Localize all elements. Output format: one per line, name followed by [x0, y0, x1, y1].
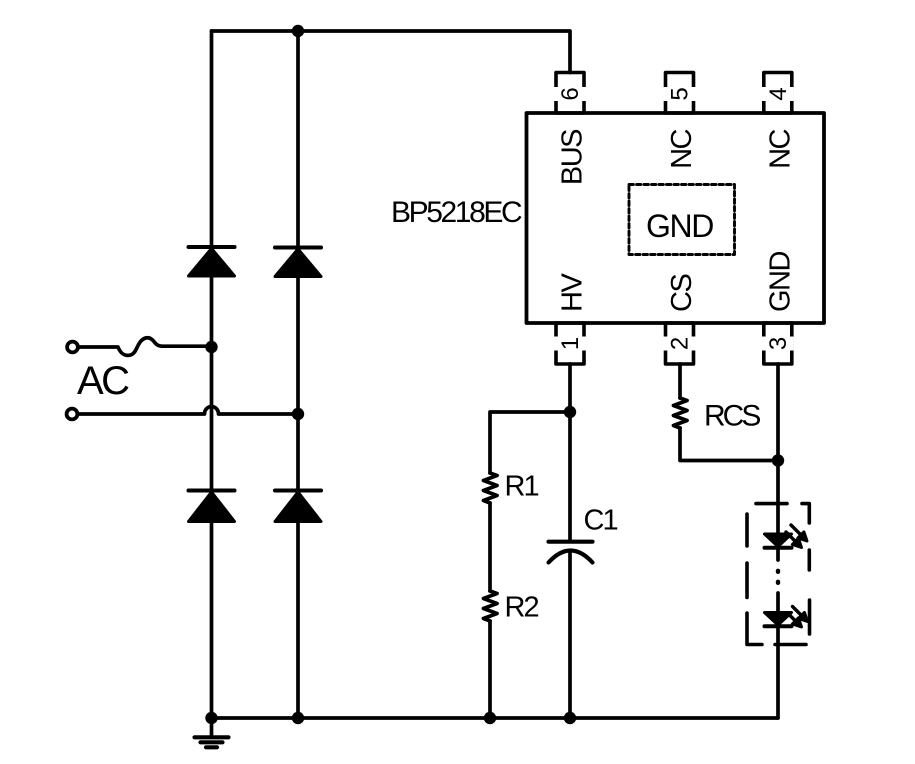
op-amp U1 BP5218EC body [527, 113, 825, 323]
wire AC top with fuse squiggle [79, 338, 212, 356]
LED D5 arrow 2 [786, 532, 802, 548]
resistor RCS [674, 398, 688, 428]
pin box 5 [666, 73, 694, 114]
LED dashed box [747, 504, 810, 645]
pin box 6 [556, 73, 584, 114]
node AC top tap [205, 341, 217, 353]
resistor R2 [484, 591, 498, 621]
wire pin3 down [776, 364, 780, 534]
svg-text:R1: R1 [505, 471, 539, 503]
diode upper-right [275, 248, 321, 277]
svg-text:6: 6 [557, 87, 584, 100]
svg-text:C1: C1 [584, 505, 618, 537]
pin box 2 [666, 323, 694, 364]
node ground rail left [205, 712, 217, 724]
node ground rail 3 [484, 712, 496, 724]
svg-text:3: 3 [765, 337, 792, 350]
wire pin2 to RCS [678, 364, 682, 398]
svg-text:5: 5 [667, 87, 694, 100]
wire RCS to node [680, 428, 778, 461]
wire LED to rail [776, 626, 780, 718]
svg-text:NC: NC [666, 129, 698, 168]
LED D5 arrow 1 [791, 525, 807, 541]
svg-text:GND: GND [646, 208, 713, 244]
svg-text:BP5218EC: BP5218EC [391, 196, 522, 229]
node CS-GND junction [772, 454, 784, 466]
node ground rail 4 [564, 712, 576, 724]
LED D6 arrow 1 [793, 607, 808, 622]
capacitor C1 [549, 542, 593, 563]
wire bottom rail [212, 716, 779, 720]
diode upper-left [189, 247, 235, 276]
wire node to R branch [490, 412, 570, 473]
wire AC bottom with hop [78, 407, 299, 414]
node HV branch [564, 406, 576, 418]
wire pin1 to C1 [568, 364, 572, 540]
LED D6 [765, 613, 792, 627]
node AC bottom tap [292, 408, 304, 420]
ground [195, 718, 229, 747]
LED D6 arrow 2 [788, 613, 802, 627]
svg-text:GND: GND [764, 252, 796, 313]
LED D5 [765, 534, 792, 548]
svg-text:1: 1 [557, 337, 584, 350]
svg-text:4: 4 [765, 87, 792, 100]
svg-text:HV: HV [557, 273, 589, 312]
AC terminal bottom [67, 409, 78, 420]
diode lower-right [275, 491, 321, 522]
wire C1 to rail [568, 551, 572, 719]
svg-text:BUS: BUS [557, 129, 589, 185]
svg-text:RCS: RCS [704, 400, 760, 433]
wire R2 to rail [488, 621, 492, 718]
diode lower-left [189, 491, 235, 522]
svg-text:R2: R2 [505, 592, 539, 624]
svg-text:2: 2 [667, 337, 694, 350]
svg-text:CS: CS [666, 274, 698, 312]
resistor R1 [484, 473, 498, 503]
wire top bus [212, 31, 571, 73]
wire left vertical [210, 31, 214, 718]
svg-text:AC: AC [77, 359, 129, 403]
AC terminal top [67, 342, 78, 353]
wire dash-dot continuation [776, 548, 780, 561]
node ground rail 2 [292, 712, 304, 724]
wire R1 to R2 [488, 503, 492, 591]
svg-text:NC: NC [764, 129, 796, 168]
pin box 4 [764, 73, 792, 114]
wire right vertical [296, 31, 300, 718]
pin halo bands [554, 87, 794, 351]
pin box 1 [556, 323, 584, 364]
node top bus junction [292, 25, 304, 37]
pin box 3 [764, 323, 792, 364]
GND dotted box [629, 185, 735, 255]
